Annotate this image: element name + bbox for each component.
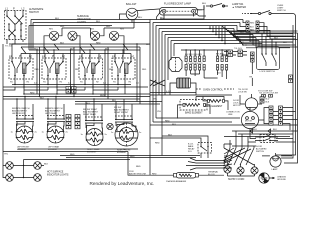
svg-text:TO 4-5: TO 4-5 — [5, 46, 13, 48]
right front dual element — [111, 123, 142, 151]
surface indicator light 4 — [109, 29, 124, 41]
surface unit switch 1 internals — [10, 58, 31, 84]
supply cord plug 1 — [224, 162, 231, 173]
wires hot surface lights — [3, 154, 130, 179]
svg-text:BLK: BLK — [40, 98, 45, 100]
svg-text:SUPPLY CORD: SUPPLY CORD — [228, 179, 245, 181]
wires crossing left of clock — [150, 80, 232, 102]
broil element — [196, 97, 228, 111]
svg-text:BLK: BLK — [283, 42, 288, 44]
surface unit switch 2 dashed box — [42, 55, 66, 79]
svg-text:ELEMENT: ELEMENT — [117, 152, 127, 154]
surface unit switch 3 internals — [80, 58, 100, 84]
left lower vertical wires into supply — [224, 156, 255, 176]
svg-text:BLK: BLK — [172, 124, 177, 126]
bake element dashed box — [178, 100, 211, 119]
hot surface indicator light D — [34, 174, 42, 182]
verticals to infinite switches — [16, 96, 132, 117]
surface unit switch 4 dashed box — [112, 55, 135, 79]
svg-text:INDICATOR LIGHTS: INDICATOR LIGHTS — [47, 174, 69, 177]
supply cord plug 3 — [251, 164, 258, 174]
wires door lock area — [222, 52, 273, 93]
HOT SURFACE INDICATOR LIGHTS label — [47, 171, 69, 177]
svg-text:BLK: BLK — [250, 26, 254, 28]
bottom-left long wires — [3, 149, 200, 158]
infinite switch 3 — [85, 117, 103, 123]
convection motor — [241, 107, 258, 132]
svg-text:Rendered by LeadVenture, Inc.: Rendered by LeadVenture, Inc. — [90, 181, 155, 186]
element captions — [17, 146, 131, 155]
wires bus into pin grids — [181, 49, 230, 79]
svg-text:P: P — [13, 7, 15, 11]
oven lamp — [262, 153, 292, 171]
oven control pin grid right — [217, 56, 228, 75]
svg-text:LEFT REAR: LEFT REAR — [45, 112, 57, 115]
CONNECT ON label — [226, 112, 240, 117]
svg-text:ELEMENT: ELEMENT — [17, 149, 27, 151]
svg-text:BLU: BLU — [138, 17, 143, 19]
center vertical wires — [150, 95, 298, 160]
inter-box vertical feeders — [35, 43, 147, 104]
svg-text:RED: RED — [130, 156, 135, 158]
svg-text:N.O.: N.O. — [188, 151, 193, 153]
oven control pin grid row 2 — [185, 65, 205, 71]
svg-text:OVEN CONTROL: OVEN CONTROL — [203, 89, 224, 92]
diagonal feeders to switch row — [12, 43, 150, 54]
svg-text:BLK: BLK — [105, 49, 110, 51]
svg-text:SWITCH: SWITCH — [256, 151, 264, 153]
svg-text:BAKE ELEMENT: BAKE ELEMENT — [185, 112, 203, 115]
svg-text:RED: RED — [250, 23, 255, 25]
svg-text:LOCK SW: LOCK SW — [238, 91, 247, 93]
svg-text:RED: RED — [106, 26, 111, 28]
svg-text:BLK: BLK — [60, 43, 65, 45]
svg-text:MOTOR: MOTOR — [233, 105, 241, 107]
svg-text:BLK ORG BRN GRY: BLK ORG BRN GRY — [186, 63, 203, 65]
supply cord lattice — [224, 131, 254, 165]
svg-text:BLK: BLK — [44, 164, 49, 166]
svg-text:RED: RED — [96, 43, 101, 45]
svg-text:BLU: BLU — [266, 99, 270, 101]
ballast — [126, 3, 138, 20]
oven control label band — [186, 54, 224, 65]
svg-text:RED: RED — [60, 26, 65, 28]
right edge connector pair — [289, 75, 293, 83]
oven control pin grid row 1 — [185, 54, 205, 62]
hot surface indicator light B — [34, 162, 42, 170]
wires below switch row — [3, 87, 162, 105]
svg-text:LEFT FRONT: LEFT FRONT — [12, 113, 26, 115]
bottom right diode splices — [232, 129, 298, 137]
svg-text:BLK: BLK — [253, 129, 257, 131]
ALTERNATE SWITCH label — [29, 8, 44, 14]
surface indicator light 2 — [68, 31, 77, 40]
supply cord plug 2 — [237, 164, 244, 174]
svg-text:BLK: BLK — [86, 103, 91, 105]
15A mini-breaker — [166, 173, 199, 184]
bus junction dots diagonal — [209, 26, 226, 44]
relay label — [188, 144, 195, 154]
svg-text:TOL DOL: TOL DOL — [234, 48, 242, 50]
surface indicator light 1 — [49, 29, 59, 41]
wires infinite switches to elements — [17, 122, 137, 135]
svg-text:BLK RED: BLK RED — [216, 54, 224, 56]
switch row terminal band — [3, 79, 148, 88]
svg-text:ABOVE THIS LINE: ABOVE THIS LINE — [129, 172, 147, 175]
CHASSIS GROUND label — [277, 176, 286, 182]
svg-text:4-5-2: 4-5-2 — [166, 91, 172, 93]
svg-text:RED: RED — [75, 69, 80, 71]
wires feeding switch row — [12, 44, 151, 58]
svg-text:HOT SURFACE: HOT SURFACE — [47, 171, 64, 174]
svg-text:RED: RED — [142, 69, 147, 71]
door lock switch contacts — [262, 95, 273, 98]
wire from alternate switch down — [5, 40, 23, 48]
surface unit switch 1 dashed box — [9, 55, 33, 79]
svg-text:BLK: BLK — [96, 21, 101, 23]
TDL door lock label — [238, 89, 278, 95]
right top connector stack A — [246, 21, 249, 32]
svg-text:RED: RED — [30, 93, 35, 95]
svg-text:LIGHTS: LIGHTS — [77, 21, 86, 24]
DOOR LOCK MOTOR label — [233, 100, 241, 107]
infinite switch 4 — [115, 116, 133, 122]
svg-text:LOCK SWITCH: LOCK SWITCH — [260, 71, 276, 73]
fluorescent lamp body — [160, 8, 198, 16]
DOOR ACTUATED SWITCH label — [256, 146, 267, 153]
svg-text:SWITCH: SWITCH — [277, 10, 286, 12]
wires around right connectors — [259, 108, 298, 130]
svg-text:GROUND: GROUND — [277, 179, 286, 181]
wire top bus left — [29, 18, 150, 50]
svg-text:BLK: BLK — [240, 32, 245, 34]
wires to relay — [150, 135, 208, 145]
svg-text:BLK: BLK — [273, 129, 277, 131]
alternate switch internals — [6, 11, 24, 40]
wires lamp ends — [157, 3, 207, 19]
svg-text:RED: RED — [70, 154, 75, 156]
wires connector stacks to right trunk — [234, 20, 298, 50]
surface indicator light 3 — [90, 29, 100, 41]
svg-text:15A MINI-BREAKER: 15A MINI-BREAKER — [166, 180, 187, 183]
infinite switch 4 label — [114, 107, 130, 114]
svg-text:RED: RED — [136, 166, 141, 168]
svg-text:RED: RED — [100, 95, 105, 97]
svg-text:BLK: BLK — [168, 135, 173, 137]
svg-text:RED: RED — [35, 69, 40, 71]
SURFACE INDICATOR LIGHTS label — [77, 15, 91, 24]
svg-text:LINE: LINE — [228, 114, 233, 116]
hot surface indicator light A — [6, 162, 14, 170]
svg-text:ELEMENT: ELEMENT — [87, 152, 97, 154]
infinite switch 1 label — [12, 108, 30, 115]
svg-text:ELEMENT: ELEMENT — [48, 149, 58, 151]
surface unit switch 3 dashed box — [79, 55, 103, 79]
terminal block fan — [186, 156, 232, 176]
svg-text:BLK: BLK — [250, 30, 255, 32]
svg-text:SWITCH: SWITCH — [29, 11, 39, 14]
right rear element — [81, 129, 108, 146]
motor pins column — [249, 52, 254, 86]
wires joining indicator lights — [44, 20, 134, 51]
door lock motor — [240, 94, 262, 110]
svg-text:LAMP: LAMP — [272, 168, 278, 171]
wire harness octagon — [169, 58, 182, 72]
door actuated switch contacts — [255, 135, 278, 143]
top center bus nested corners — [150, 5, 262, 95]
oven light switch — [242, 5, 296, 17]
svg-text:MOTOR: MOTOR — [245, 121, 253, 123]
right fan bus wires — [222, 26, 298, 48]
right top connector stack B — [250, 21, 259, 32]
infinite switch 2 label — [45, 108, 63, 115]
lamp switch and starter — [206, 3, 246, 9]
svg-text:▲ STARTER: ▲ STARTER — [232, 6, 246, 9]
mid-left connector block upper — [66, 87, 76, 94]
right mid connector column A — [269, 106, 273, 125]
clock motor coil — [170, 78, 196, 95]
lock switch box — [257, 47, 280, 73]
right mid connector column B — [279, 106, 283, 125]
right edge vertical trunk wires — [293, 17, 298, 161]
left rear element — [42, 126, 69, 143]
door lock connector stacks top — [228, 48, 243, 57]
infinite switch 2 — [47, 116, 65, 122]
svg-text:FLUORESCENT LAMP: FLUORESCENT LAMP — [164, 2, 191, 6]
svg-text:RED: RED — [165, 121, 170, 123]
surface unit switch 2 internals — [43, 58, 64, 84]
svg-text:BALLAST: BALLAST — [126, 3, 137, 6]
svg-text:RED: RED — [109, 69, 114, 71]
wires mini-breaker — [128, 152, 224, 176]
wires ballast to lamp — [120, 9, 161, 23]
mid-left connector block lower — [66, 115, 80, 129]
svg-text:RED: RED — [152, 174, 157, 176]
motor aux pins — [260, 97, 270, 104]
small receptacle circle — [107, 123, 113, 129]
surface unit switch 4 internals — [113, 58, 132, 84]
left front element — [11, 126, 38, 143]
svg-text:BLK: BLK — [202, 3, 207, 5]
svg-text:BLK: BLK — [55, 18, 60, 20]
OVEN CONTROL dashed separator — [196, 89, 234, 92]
svg-text:BLU: BLU — [198, 9, 203, 11]
bottom right wires — [224, 131, 298, 163]
wire left trunk — [2, 44, 4, 168]
relay dashed box — [198, 143, 212, 159]
ALTERNATE SWITCH dashed box — [5, 7, 27, 40]
infinite switch 1 — [16, 116, 34, 122]
hot surface indicator light C — [6, 174, 14, 182]
chassis ground — [259, 173, 275, 183]
infinite switch 3 label — [83, 109, 99, 116]
svg-text:RED: RED — [155, 143, 160, 145]
